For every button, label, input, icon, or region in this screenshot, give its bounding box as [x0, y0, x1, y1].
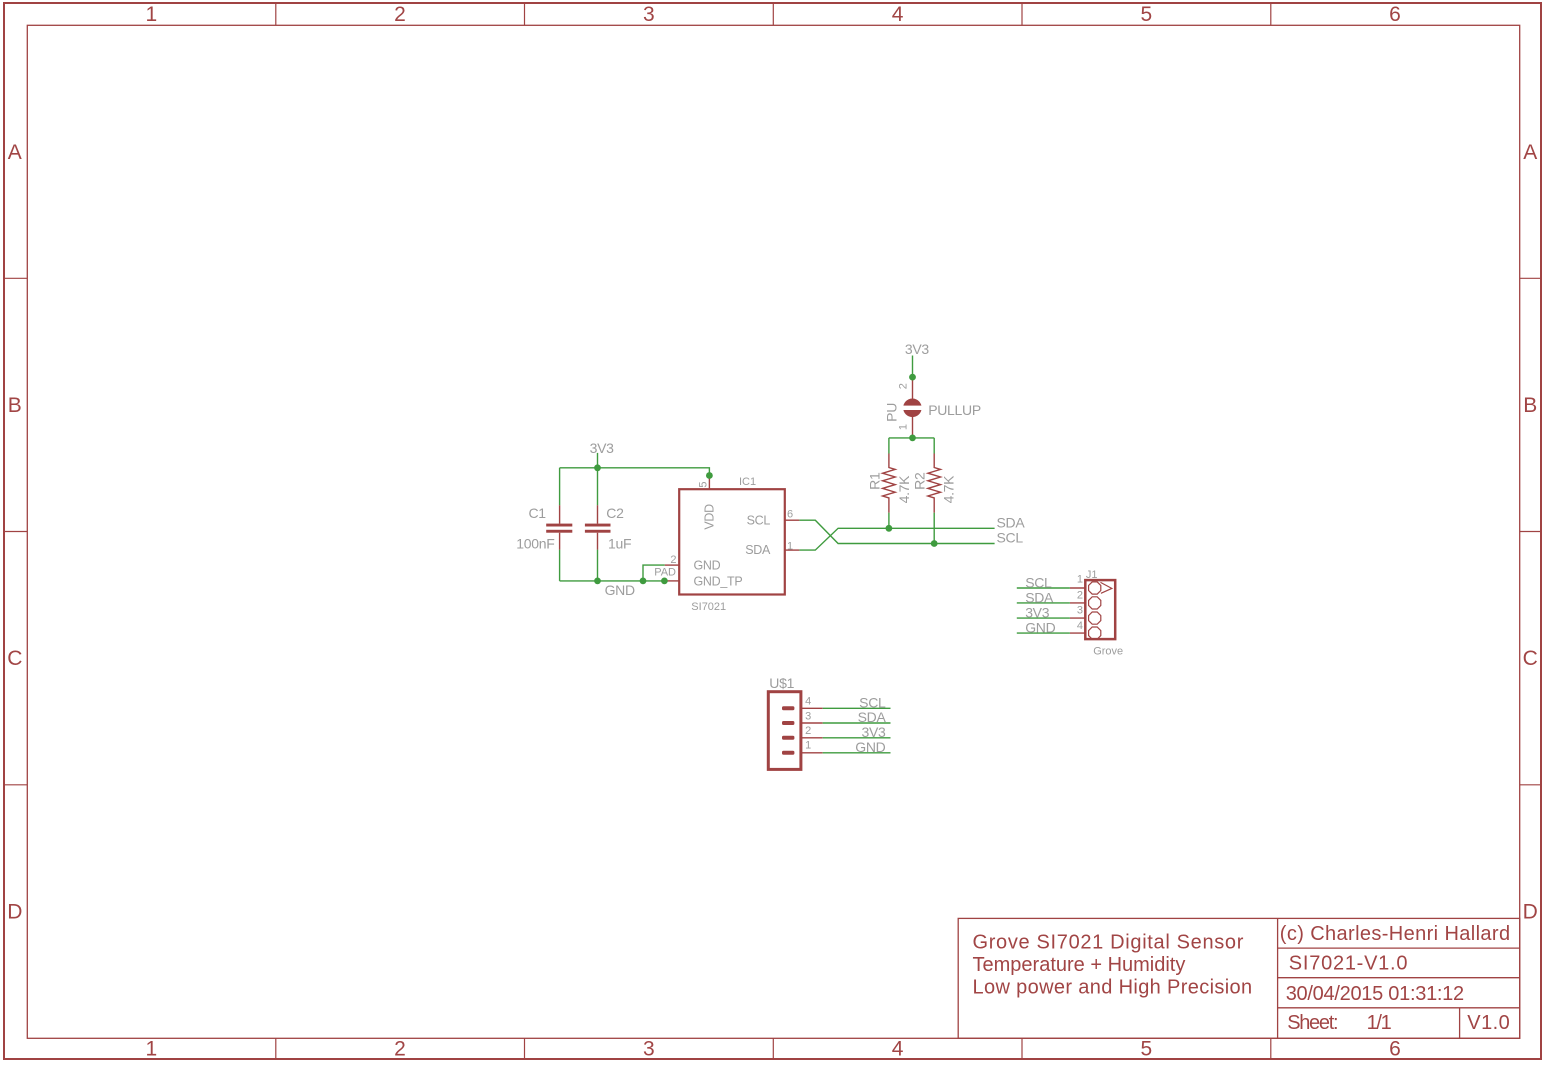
svg-text:D: D	[7, 900, 22, 923]
svg-text:C: C	[7, 647, 22, 670]
svg-text:A: A	[1523, 141, 1537, 164]
svg-text:GND: GND	[605, 582, 635, 598]
svg-text:U$1: U$1	[769, 675, 794, 691]
svg-text:4: 4	[892, 3, 904, 26]
svg-text:1/1: 1/1	[1367, 1012, 1392, 1034]
svg-text:D: D	[1523, 900, 1538, 923]
svg-text:SDA: SDA	[745, 543, 771, 557]
svg-text:SI7021-V1.0: SI7021-V1.0	[1289, 953, 1408, 975]
wire SDA from pin1	[799, 528, 994, 550]
node PU top junction	[909, 374, 916, 381]
svg-text:IC1: IC1	[739, 476, 756, 488]
svg-text:4: 4	[892, 1038, 904, 1061]
svg-text:PU: PU	[884, 403, 900, 422]
connector J1 Grove	[1085, 569, 1123, 657]
svg-text:1: 1	[898, 424, 910, 430]
svg-text:B: B	[8, 394, 22, 417]
net labels J1	[1025, 574, 1055, 635]
wire SCL from pin6	[799, 520, 994, 543]
U$1 pin stubs	[801, 695, 823, 752]
wire GND bottom	[560, 580, 665, 582]
pin 5 VDD	[698, 476, 710, 490]
wire 3V3 rail to IC pin5	[560, 468, 710, 476]
svg-text:SCL: SCL	[1025, 574, 1052, 590]
svg-text:B: B	[1523, 394, 1537, 417]
wire C1 top	[559, 468, 561, 506]
svg-text:GND: GND	[694, 559, 721, 573]
svg-text:SDA: SDA	[1025, 589, 1054, 605]
svg-text:C: C	[1523, 647, 1538, 670]
svg-text:3: 3	[643, 1038, 655, 1061]
op-amp U1 : IC1 SI7021 body	[679, 476, 785, 613]
junction dots	[594, 374, 938, 585]
svg-text:6: 6	[787, 509, 793, 521]
resistor R1 4.7K	[866, 454, 912, 513]
pin 6 SCL	[785, 509, 800, 521]
capacitor C1	[516, 505, 572, 551]
wire J1 3V3	[1017, 617, 1070, 619]
wire 3V3 stem	[597, 453, 599, 468]
svg-text:6: 6	[1389, 3, 1401, 26]
svg-text:1: 1	[1077, 574, 1083, 586]
pin PAD GND_TP	[654, 566, 679, 581]
capacitor C2	[585, 505, 631, 551]
svg-text:SCL: SCL	[859, 694, 886, 710]
svg-text:3: 3	[805, 710, 811, 722]
wire J1 GND	[1017, 632, 1070, 634]
svg-text:GND: GND	[855, 739, 885, 755]
svg-text:3V3: 3V3	[861, 724, 886, 740]
node PAD junction	[661, 578, 668, 585]
wire U$1 GND	[823, 752, 891, 754]
svg-text:2: 2	[394, 3, 406, 26]
wire C1 bottom	[559, 550, 561, 581]
svg-text:4: 4	[1077, 620, 1083, 632]
pin 1 SDA	[785, 540, 800, 552]
svg-text:1: 1	[805, 739, 811, 751]
svg-text:6: 6	[1389, 1038, 1401, 1061]
svg-text:V1.0: V1.0	[1467, 1012, 1510, 1034]
svg-text:5: 5	[1141, 3, 1153, 26]
node R1-SDA junction	[886, 525, 893, 532]
svg-text:PULLUP: PULLUP	[928, 402, 981, 418]
net GND label	[605, 582, 635, 598]
svg-text:(c) Charles-Henri Hallard: (c) Charles-Henri Hallard	[1280, 923, 1511, 945]
pin 2 GND	[665, 554, 679, 566]
svg-text:SCL: SCL	[747, 513, 771, 527]
svg-text:R2: R2	[911, 472, 927, 490]
wire pin2 jog	[643, 565, 665, 581]
node GND-C2 junction	[594, 578, 601, 585]
svg-text:1: 1	[146, 1038, 158, 1061]
wire J1 SCL	[1017, 587, 1070, 589]
svg-text:2: 2	[394, 1038, 406, 1061]
svg-text:Low power and High Precision: Low power and High Precision	[973, 977, 1253, 999]
svg-text:2: 2	[1077, 589, 1083, 601]
wire U$1 3V3	[823, 737, 891, 739]
svg-text:J1: J1	[1086, 569, 1098, 581]
wire J1 SDA	[1017, 602, 1070, 604]
svg-text:1uF: 1uF	[608, 535, 631, 551]
svg-text:3V3: 3V3	[590, 440, 615, 456]
svg-text:100nF: 100nF	[516, 535, 554, 551]
svg-text:Grove: Grove	[1093, 646, 1123, 658]
svg-text:C1: C1	[529, 505, 547, 521]
svg-text:4.7K: 4.7K	[941, 475, 957, 504]
connector U$1	[768, 675, 801, 769]
svg-text:3: 3	[643, 3, 655, 26]
jumper PU PULLUP	[884, 377, 981, 438]
svg-text:3V3: 3V3	[905, 341, 930, 357]
wire PU to resistors tee	[889, 438, 934, 454]
wire 3V3 to PU pin2	[912, 356, 914, 378]
net labels U$1	[855, 694, 886, 755]
resistor R2 4.7K	[911, 454, 956, 513]
svg-text:3V3: 3V3	[1025, 605, 1050, 621]
node GND jog junction	[640, 578, 647, 585]
svg-text:SI7021: SI7021	[691, 601, 726, 613]
svg-text:C2: C2	[606, 505, 624, 521]
title block	[958, 918, 1519, 1038]
J1 pin stubs	[1070, 574, 1085, 633]
svg-text:PAD: PAD	[654, 566, 676, 578]
svg-text:A: A	[8, 141, 22, 164]
svg-text:30/04/2015 01:31:12: 30/04/2015 01:31:12	[1286, 983, 1464, 1005]
node pin5 junction	[706, 472, 713, 479]
net 3V3 label left	[590, 440, 615, 456]
node R2-SCL junction	[931, 540, 938, 547]
svg-text:2: 2	[670, 554, 676, 566]
svg-text:1: 1	[787, 540, 793, 552]
node PU bottom junction	[909, 435, 916, 442]
net SCL label	[997, 530, 1024, 546]
wire C2 bottom	[597, 550, 599, 581]
wire U$1 SDA	[823, 722, 891, 724]
svg-text:4: 4	[805, 695, 811, 707]
svg-text:SDA: SDA	[858, 709, 887, 725]
wire R1 to SDA rail	[888, 513, 890, 529]
svg-text:2: 2	[805, 725, 811, 737]
svg-text:3: 3	[1077, 605, 1083, 617]
wire C2 top	[597, 468, 599, 506]
svg-text:4.7K: 4.7K	[896, 475, 912, 504]
svg-text:R1: R1	[866, 472, 882, 490]
svg-text:5: 5	[698, 481, 710, 487]
svg-text:5: 5	[1141, 1038, 1153, 1061]
svg-text:GND: GND	[1025, 620, 1055, 636]
wire R2 to SCL rail	[933, 513, 935, 544]
svg-text:SCL: SCL	[997, 530, 1024, 546]
svg-text:1: 1	[146, 3, 158, 26]
net 3V3 label above pullup	[905, 341, 930, 357]
svg-text:Temperature + Humidity: Temperature + Humidity	[973, 954, 1186, 976]
net SDA label	[997, 514, 1026, 530]
svg-text:VDD: VDD	[702, 504, 716, 530]
wire U$1 SCL	[823, 707, 891, 709]
svg-text:GND_TP: GND_TP	[694, 574, 743, 588]
svg-text:2: 2	[898, 383, 910, 389]
svg-text:Grove SI7021 Digital Sensor: Grove SI7021 Digital Sensor	[973, 932, 1245, 954]
svg-text:SDA: SDA	[997, 514, 1026, 530]
svg-text:Sheet:: Sheet:	[1287, 1012, 1337, 1034]
node 3V3-C1C2 junction	[594, 464, 601, 471]
